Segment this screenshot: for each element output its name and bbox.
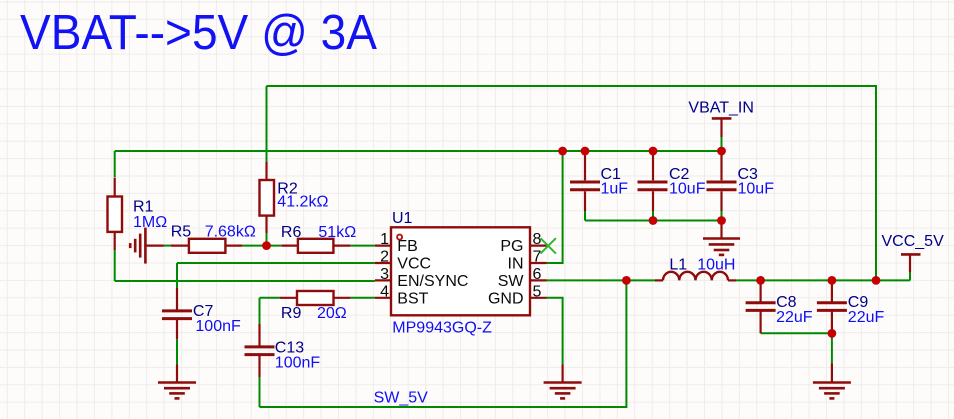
capacitor C1 [570,152,628,211]
svg-text:SW_5V: SW_5V [374,390,429,407]
svg-text:FB: FB [397,238,417,255]
wire SW output row right of L1 [736,279,910,281]
svg-text:4: 4 [380,283,389,300]
wire SW_5V bottom [260,280,627,407]
wire R1 branch top [114,151,116,177]
node VCC_5V rail [872,276,881,285]
node C1 top [581,147,590,156]
wire BST row to R9 [260,297,280,299]
svg-text:22uF: 22uF [776,309,813,326]
svg-text:10uF: 10uF [738,181,775,198]
wire GND pin5 [547,298,563,365]
ground under C9 [813,364,851,399]
inductor L1 [655,257,736,281]
svg-text:R6: R6 [281,224,302,241]
svg-text:R5: R5 [171,224,192,241]
svg-text:VBAT-->5V @ 3A: VBAT-->5V @ 3A [20,6,377,60]
node C8 top [756,276,765,285]
svg-text:VCC_5V: VCC_5V [882,233,945,250]
svg-text:8: 8 [533,231,542,248]
svg-text:6: 6 [533,266,542,283]
wire VCC_5V power stem [909,272,911,280]
wire R2 branch bottom [266,233,268,246]
wire R2 branch top [266,86,268,162]
svg-text:1: 1 [380,231,389,248]
svg-text:1uF: 1uF [601,181,629,198]
node C9 bottom / gnd [828,329,837,338]
capacitor C7 [162,288,241,339]
node FB divider [262,241,271,250]
wire VBAT_IN stem [721,137,723,151]
svg-text:10uF: 10uF [669,181,706,198]
wire C9 ground stem [831,333,833,363]
svg-text:VBAT_IN: VBAT_IN [688,100,754,117]
wire R9 to pin4 [350,297,375,299]
svg-text:PG: PG [500,238,523,255]
svg-text:EN/SYNC: EN/SYNC [397,273,468,290]
ground under C7 [158,365,196,399]
wire C2 branch lower [652,211,654,221]
svg-text:R9: R9 [281,305,302,322]
resistor R2 [260,162,329,233]
wire FB row R6 to pin1 [350,245,375,247]
node SW bootstrap [622,276,631,285]
ground under C3 / VBAT caps [703,221,740,255]
wire C1 branch lower [584,211,586,221]
wire FB row gnd to R5 [164,245,171,247]
svg-text:VCC: VCC [397,256,431,273]
capacitor C9 [817,282,885,334]
capacitor C13 [245,324,321,377]
node IN riser on VBAT rail [558,147,567,156]
wire C13 branch upper [259,298,261,324]
svg-text:MP9943GQ-Z: MP9943GQ-Z [392,319,492,336]
no-connect X on pin 8 [541,238,556,253]
node C3 top / VBAT stem [717,147,726,156]
wire IN pin7 riser [547,151,563,263]
wire VCC row pin2 [177,262,375,264]
wire FB row R5 to R6 [242,245,281,247]
wire C7 branch lower [176,339,178,364]
wire EN/SYNC row pin3 [115,280,375,282]
capacitor C8 [746,282,813,334]
svg-text:7.68kΩ: 7.68kΩ [205,224,256,241]
svg-text:2: 2 [380,249,389,266]
wire C3 branch lower [721,211,723,221]
wire C13 branch lower [259,377,261,407]
node C3 bottom / gnd [717,216,726,225]
svg-text:20Ω: 20Ω [317,305,347,322]
ground divider (rotated left) [130,228,164,264]
resistor R5 [171,224,256,253]
node C9 top [828,276,837,285]
capacitor C2 [638,152,706,211]
svg-text:22uF: 22uF [848,309,885,326]
svg-text:100nF: 100nF [275,355,321,372]
wire R1 branch bottom [114,250,116,281]
capacitor C3 [707,152,775,211]
power port VBAT_IN [688,100,754,138]
wire SW output row left of L1 [547,279,656,281]
resistor R1 [108,178,168,251]
resistor R9 [280,291,351,322]
svg-text:51kΩ: 51kΩ [318,224,356,241]
svg-text:1MΩ: 1MΩ [133,214,167,231]
svg-text:GND: GND [488,290,524,307]
svg-text:U1: U1 [392,210,413,227]
wire C7 branch upper [176,263,178,288]
ground pin5 GND [544,365,582,399]
svg-text:3: 3 [380,266,389,283]
node C2 top [649,147,658,156]
IC U1 MP9943GQ-Z buck regulator [375,210,547,336]
svg-text:5: 5 [533,283,542,300]
resistor R6 [281,224,356,253]
wire VBAT_IN rail [115,150,722,152]
wire C8 C9 bottom rail [761,332,832,334]
node C2 bottom [649,216,658,225]
svg-text:7: 7 [533,249,542,266]
pin1 marker circle [397,235,402,240]
svg-text:10uH: 10uH [697,257,735,274]
svg-text:BST: BST [397,290,428,307]
power port VCC_5V [882,233,945,272]
wire caps bottom rail [585,220,722,222]
svg-text:IN: IN [508,256,524,273]
svg-text:R1: R1 [133,199,154,216]
svg-text:41.2kΩ: 41.2kΩ [277,194,328,211]
svg-text:L1: L1 [669,257,687,274]
wire top rail VCC_5V feedback [267,86,877,280]
svg-text:SW: SW [498,273,525,290]
svg-text:100nF: 100nF [195,318,241,335]
